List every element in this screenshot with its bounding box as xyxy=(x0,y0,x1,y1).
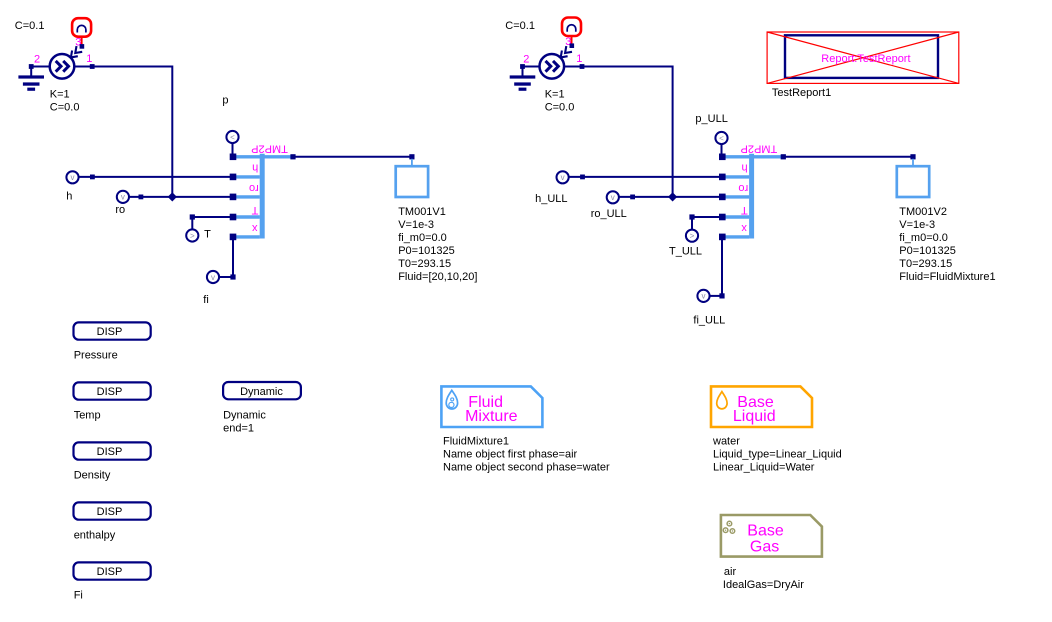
display block DISP (Temp) xyxy=(74,382,151,399)
svg-text:v: v xyxy=(211,273,215,282)
svg-text:ro: ro xyxy=(738,182,748,194)
sensor h_ULL xyxy=(557,171,569,183)
svg-text:h: h xyxy=(742,162,748,174)
svg-text:Mixture: Mixture xyxy=(465,408,518,425)
parameter text TM001V2 xyxy=(899,206,995,283)
wire source to down-corner xyxy=(62,66,172,68)
svg-text:v: v xyxy=(121,193,125,202)
svg-text:T: T xyxy=(204,229,211,241)
svg-text:Base: Base xyxy=(747,522,784,539)
wire ground to source xyxy=(523,66,552,68)
junction source/ro xyxy=(168,192,177,201)
svg-text:Dynamic: Dynamic xyxy=(240,386,283,398)
wire sensor fi to block xyxy=(709,295,723,297)
junction source/ro xyxy=(668,192,677,201)
svg-text:2: 2 xyxy=(523,54,529,66)
wire sensor p stem xyxy=(721,143,723,157)
svg-text:Report:TestReport: Report:TestReport xyxy=(821,53,910,65)
svg-text:<: < xyxy=(719,134,724,143)
node pin3 xyxy=(80,44,85,49)
svg-text:Linear_Liquid=Water: Linear_Liquid=Water xyxy=(713,461,815,473)
svg-text:K=1: K=1 xyxy=(50,88,70,100)
svg-text:P0=101325: P0=101325 xyxy=(899,245,956,257)
svg-text:C=0.0: C=0.0 xyxy=(545,101,575,113)
svg-text:ro: ro xyxy=(249,182,259,194)
node on h wire xyxy=(580,175,585,180)
curve source block F1 (red) xyxy=(72,18,91,37)
svg-text:DISP: DISP xyxy=(97,446,123,458)
volume element TM001V2 xyxy=(897,166,929,197)
svg-text:C=0.0: C=0.0 xyxy=(50,101,80,113)
svg-text:V=1e-3: V=1e-3 xyxy=(398,219,434,231)
wire sensor ro to block xyxy=(123,196,233,198)
svg-text:ro_ULL: ro_ULL xyxy=(591,208,627,220)
curve source block F2 (red) xyxy=(562,18,581,37)
component TMP2P block outline xyxy=(233,154,293,239)
port node ro xyxy=(719,194,726,201)
svg-text:Name object first phase=air: Name object first phase=air xyxy=(443,448,578,460)
port node x xyxy=(230,234,237,241)
sensor fi_ULL xyxy=(697,290,709,302)
svg-text:v: v xyxy=(561,173,565,182)
node on ro wire xyxy=(630,195,635,200)
fluid object water (Base Liquid) badge xyxy=(711,386,812,427)
node above volume xyxy=(409,154,414,159)
svg-text:air: air xyxy=(724,566,737,578)
svg-text:end=1: end=1 xyxy=(223,422,254,434)
svg-text:x: x xyxy=(251,222,257,234)
svg-text:Fluid=[20,10,20]: Fluid=[20,10,20] xyxy=(398,271,477,283)
node on ro wire xyxy=(139,195,144,200)
svg-text:1: 1 xyxy=(86,53,92,65)
svg-text:x: x xyxy=(741,222,747,234)
wire source to down-corner xyxy=(552,66,673,68)
sensor h xyxy=(66,171,78,183)
wire block to volume TM001V2 xyxy=(783,156,913,158)
svg-text:P0=101325: P0=101325 xyxy=(398,245,455,257)
port node p xyxy=(719,154,726,161)
signal source symbol (source2) xyxy=(540,54,565,79)
wire sensor ro to block xyxy=(613,196,723,198)
signal source symbol (source1) xyxy=(50,54,75,79)
svg-text:Fluid=FluidMixture1: Fluid=FluidMixture1 xyxy=(899,271,995,283)
svg-text:DISP: DISP xyxy=(97,326,123,338)
svg-text:Dynamic: Dynamic xyxy=(223,409,266,421)
node pin3 xyxy=(570,43,575,48)
connection arrow into source xyxy=(71,46,82,57)
svg-text:p_ULL: p_ULL xyxy=(695,113,727,125)
wire vertical down to ro junction xyxy=(672,66,674,197)
port node T xyxy=(230,214,237,221)
svg-text:C=0.1: C=0.1 xyxy=(505,20,535,32)
svg-text:h: h xyxy=(252,162,258,174)
connector stub volume xyxy=(912,159,914,167)
port node T xyxy=(719,214,726,221)
svg-text:FluidMixture1: FluidMixture1 xyxy=(443,435,509,447)
svg-text:water: water xyxy=(712,435,740,447)
node fi corner xyxy=(719,293,724,298)
wire vertical down to ro junction xyxy=(171,66,173,197)
port node h xyxy=(719,174,726,181)
parameter text TM001V1 xyxy=(398,206,477,283)
sensor ro_ULL xyxy=(607,191,619,203)
sensor p xyxy=(226,131,238,143)
node at ground xyxy=(520,64,525,69)
svg-text:TestReport1: TestReport1 xyxy=(772,87,831,99)
svg-text:T0=293.15: T0=293.15 xyxy=(899,258,952,270)
wire sensor T to block xyxy=(691,217,693,231)
svg-text:TM001V2: TM001V2 xyxy=(899,206,947,218)
sensor T xyxy=(186,229,198,241)
wire sensor p stem xyxy=(232,142,234,157)
fluid object FluidMixture1 badge xyxy=(441,386,542,427)
svg-text:C=0.1: C=0.1 xyxy=(15,20,45,32)
svg-text:2: 2 xyxy=(34,54,40,66)
port node x xyxy=(719,234,726,241)
svg-text:K=1: K=1 xyxy=(545,88,565,100)
sensor ro xyxy=(117,191,129,203)
wire block to volume TM001V1 xyxy=(293,156,412,158)
svg-text:T0=293.15: T0=293.15 xyxy=(398,258,451,270)
node above volume xyxy=(910,154,915,159)
ground xyxy=(18,67,44,91)
port node p xyxy=(230,154,237,161)
node at block top-right xyxy=(781,154,786,159)
svg-text:fi_m0=0.0: fi_m0=0.0 xyxy=(398,232,447,244)
svg-text:DISP: DISP xyxy=(97,506,123,518)
svg-text:Temp: Temp xyxy=(74,410,101,422)
svg-text:fi_ULL: fi_ULL xyxy=(693,315,725,327)
svg-text:<: < xyxy=(230,133,235,142)
connector stub volume xyxy=(411,159,413,167)
node on wire right of source xyxy=(580,64,585,69)
wire sensor T to block xyxy=(191,217,193,231)
parameter text FluidMixture1 xyxy=(443,435,610,473)
svg-text:DISP: DISP xyxy=(97,386,123,398)
svg-text:>: > xyxy=(690,232,695,241)
svg-text:TMP2P: TMP2P xyxy=(251,142,288,154)
simulation control block Dynamic xyxy=(223,382,301,399)
parameter text water xyxy=(712,435,842,473)
connection arrow into source xyxy=(561,46,572,57)
parameter text air xyxy=(723,566,804,591)
svg-text:IdealGas=DryAir: IdealGas=DryAir xyxy=(723,579,804,591)
wire sensor h to block xyxy=(73,176,234,178)
svg-text:V=1e-3: V=1e-3 xyxy=(899,219,935,231)
sensor p_ULL xyxy=(715,132,727,144)
wire red stem pin3 xyxy=(571,36,573,45)
volume element TM001V1 xyxy=(396,166,428,197)
svg-text:fi_m0=0.0: fi_m0=0.0 xyxy=(899,232,948,244)
svg-text:v: v xyxy=(611,193,615,202)
sensor T_ULL xyxy=(686,230,698,242)
display block DISP (Pressure) xyxy=(74,322,151,339)
wire sensor fi to block xyxy=(218,276,233,278)
report block TestReport1 (red placeholder) xyxy=(767,32,959,83)
port node h xyxy=(230,174,237,181)
svg-text:v: v xyxy=(702,292,706,301)
svg-text:T: T xyxy=(251,204,258,216)
display block DISP (Fi) xyxy=(74,562,151,579)
ground xyxy=(510,67,536,91)
svg-text:T_ULL: T_ULL xyxy=(669,246,702,258)
node T corner xyxy=(190,214,195,219)
svg-text:DISP: DISP xyxy=(97,566,123,578)
node on h wire xyxy=(90,175,95,180)
node T corner xyxy=(689,214,694,219)
display block DISP (Density) xyxy=(74,442,151,459)
svg-text:Name object second phase=water: Name object second phase=water xyxy=(443,461,610,473)
svg-text:T: T xyxy=(741,204,748,216)
svg-text:Fi: Fi xyxy=(74,590,83,602)
svg-text:TM001V1: TM001V1 xyxy=(398,206,446,218)
svg-text:v: v xyxy=(71,173,75,182)
svg-text:h_ULL: h_ULL xyxy=(535,193,567,205)
wire red stem pin3 xyxy=(81,37,83,46)
node fi corner xyxy=(230,274,235,279)
port node ro xyxy=(230,194,237,201)
node on wire right of source xyxy=(90,64,95,69)
svg-text:ro: ro xyxy=(115,204,125,216)
wire sensor h to block xyxy=(563,176,723,178)
node at block top-right xyxy=(290,154,295,159)
svg-text:Density: Density xyxy=(74,470,111,482)
svg-text:1: 1 xyxy=(576,53,582,65)
svg-text:Gas: Gas xyxy=(750,538,779,555)
svg-text:Pressure: Pressure xyxy=(74,350,118,362)
svg-text:Liquid: Liquid xyxy=(733,408,776,425)
fluid object air (Base Gas) badge xyxy=(721,515,822,557)
svg-text:>: > xyxy=(190,231,195,240)
svg-text:p: p xyxy=(222,95,228,107)
svg-text:h: h xyxy=(66,190,72,202)
svg-text:Liquid_type=Linear_Liquid: Liquid_type=Linear_Liquid xyxy=(713,448,842,460)
svg-text:fi: fi xyxy=(203,294,209,306)
svg-text:enthalpy: enthalpy xyxy=(74,530,116,542)
sensor fi xyxy=(207,271,219,283)
svg-text:TMP2P: TMP2P xyxy=(741,142,778,154)
wire ground to source xyxy=(31,66,62,68)
display block DISP (enthalpy) xyxy=(74,502,151,519)
node at ground xyxy=(29,64,34,69)
component TMP2P block outline xyxy=(722,154,783,239)
